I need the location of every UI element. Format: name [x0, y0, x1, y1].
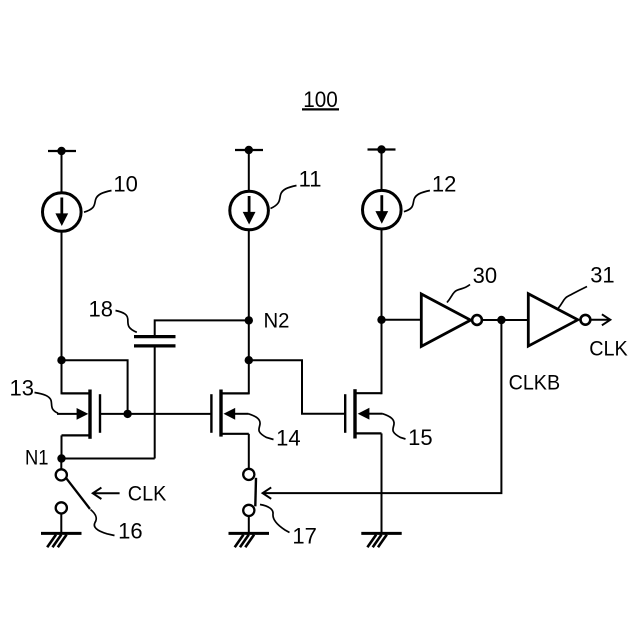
current source 10	[43, 193, 82, 232]
wire diode connection 13	[62, 360, 128, 414]
wire N1 to capacitor bottom	[62, 458, 155, 460]
inverter 31 input wire	[501, 319, 528, 321]
current source 12	[363, 190, 402, 229]
junction branch to 15 gate	[245, 356, 253, 364]
svg-text:CLKB: CLKB	[509, 371, 560, 394]
svg-text:18: 18	[89, 297, 113, 322]
inverter 31	[528, 294, 590, 346]
svg-text:13: 13	[10, 376, 34, 401]
junction inverter input	[377, 316, 385, 324]
node N2 junction	[245, 316, 253, 324]
switch 16	[56, 459, 90, 534]
wire CS10 to transistor 13 drain	[61, 231, 63, 394]
junction rail 2	[245, 146, 253, 154]
inverter 30 input wire	[382, 319, 422, 321]
switch 17	[243, 469, 256, 534]
wire CS11 down to transistor 14 drain	[248, 230, 250, 395]
ground under switch 17	[229, 533, 270, 547]
svg-text:N2: N2	[264, 310, 290, 333]
gate wire 13 to 14	[128, 413, 211, 415]
current source 11	[230, 191, 269, 230]
wire rail2 to current source 11	[248, 150, 250, 191]
svg-text:30: 30	[473, 263, 497, 288]
power rail 1	[48, 150, 76, 152]
transistor 15	[345, 389, 381, 438]
junction gate 13	[123, 410, 131, 418]
label 10	[84, 171, 138, 212]
label 18	[89, 297, 137, 333]
label 31	[558, 263, 615, 309]
svg-text:CLK: CLK	[128, 483, 167, 506]
svg-text:N1: N1	[25, 447, 49, 470]
svg-text:17: 17	[292, 524, 316, 549]
wire rail3 to current source 12	[381, 150, 383, 191]
capacitor 18	[134, 337, 176, 346]
inverter 30 output wire	[483, 319, 502, 321]
svg-text:12: 12	[432, 171, 456, 196]
label 12	[404, 171, 456, 211]
svg-text:11: 11	[299, 166, 322, 191]
ground under switch 16	[41, 533, 82, 547]
node N1 junction	[57, 454, 65, 462]
transistor 14	[211, 390, 248, 469]
label 16	[91, 510, 143, 544]
svg-text:CLK: CLK	[589, 338, 628, 361]
svg-text:14: 14	[276, 425, 300, 450]
junction rail 3	[377, 145, 385, 153]
wire N2 to capacitor 18	[155, 320, 249, 337]
svg-text:16: 16	[118, 519, 142, 544]
wire CLKB from node down to switch 17	[263, 320, 502, 493]
inverter 31 output arrow CLK	[589, 314, 628, 360]
junction rail 1	[57, 147, 65, 155]
power rail 3	[368, 148, 396, 150]
label 13 with leader arrow	[10, 376, 89, 420]
svg-text:31: 31	[590, 263, 614, 288]
CLK arrow at switch 16	[93, 483, 167, 506]
wire transistor 15 source to ground	[381, 433, 383, 533]
wire rail1 to current source 10	[61, 151, 63, 193]
inverter 30	[421, 294, 482, 346]
svg-text:10: 10	[113, 171, 137, 196]
junction CLKB node	[497, 316, 505, 324]
wire branch N2 node to transistor 15 gate	[249, 360, 344, 414]
arrowhead at switch 17	[263, 487, 272, 498]
figure title 100	[302, 87, 339, 112]
ground under transistor 15	[361, 533, 401, 547]
label 30	[447, 263, 497, 303]
label 15 with leader arrow	[358, 408, 433, 450]
wire CS12 down to transistor 15 drain	[381, 229, 383, 394]
svg-text:15: 15	[408, 425, 432, 450]
label 14 with leader arrow	[224, 408, 301, 450]
node junction at drain of 13	[57, 356, 65, 364]
power rail 2	[235, 149, 263, 151]
wire capacitor bottom to N1	[154, 346, 156, 459]
label 11	[271, 166, 322, 208]
transistor 13	[62, 390, 128, 460]
label 17	[260, 505, 317, 549]
